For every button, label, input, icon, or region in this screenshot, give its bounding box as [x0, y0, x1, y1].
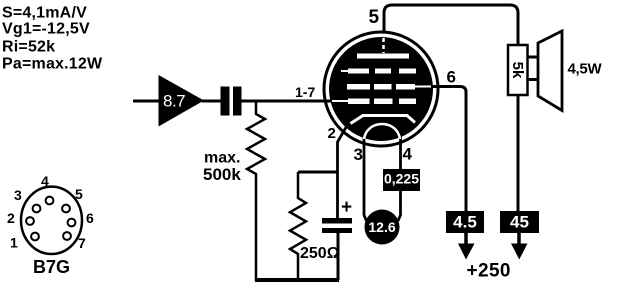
svg-text:5: 5 — [75, 186, 83, 202]
svg-text:8.7: 8.7 — [163, 92, 185, 111]
svg-text:5k: 5k — [509, 62, 526, 79]
svg-text:+: + — [341, 197, 352, 218]
svg-text:1-7: 1-7 — [295, 84, 315, 100]
svg-text:6: 6 — [86, 210, 94, 226]
svg-text:max.: max. — [204, 150, 240, 167]
svg-text:B7G: B7G — [33, 257, 70, 277]
svg-text:4: 4 — [403, 145, 413, 164]
svg-text:0,225: 0,225 — [384, 171, 419, 187]
svg-text:7: 7 — [78, 235, 86, 251]
svg-text:Pa=max.12W: Pa=max.12W — [2, 56, 103, 73]
svg-text:3: 3 — [14, 187, 22, 203]
svg-text:4.5: 4.5 — [453, 213, 477, 232]
svg-text:500k: 500k — [203, 165, 241, 184]
svg-text:250Ω: 250Ω — [300, 245, 340, 262]
svg-text:Vg1=-12,5V: Vg1=-12,5V — [2, 21, 90, 38]
svg-text:2: 2 — [328, 125, 336, 142]
svg-text:3: 3 — [354, 145, 363, 164]
svg-text:5: 5 — [369, 7, 380, 28]
svg-text:Ri=52k: Ri=52k — [2, 39, 55, 56]
svg-text:+250: +250 — [467, 261, 511, 282]
svg-text:S=4,1mA/V: S=4,1mA/V — [2, 5, 87, 22]
svg-text:6: 6 — [447, 68, 456, 87]
svg-text:1: 1 — [10, 235, 18, 251]
svg-text:12.6: 12.6 — [368, 219, 395, 235]
svg-text:4,5W: 4,5W — [568, 61, 603, 78]
svg-text:45: 45 — [510, 213, 529, 232]
svg-text:4: 4 — [41, 173, 49, 189]
svg-text:2: 2 — [7, 210, 15, 226]
